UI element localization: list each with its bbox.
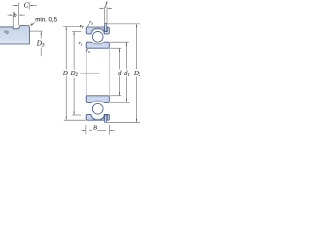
main view: upper ball — [92, 31, 103, 42]
main view: upper outer ring — [86, 27, 109, 34]
dimension D right edge — [107, 24, 140, 122]
main view: lower outer ring — [86, 114, 109, 120]
dimension D2 (left) — [72, 31, 81, 115]
main view: lower inner ring — [86, 96, 109, 103]
svg-text:D2: D2 — [70, 70, 79, 78]
dimension D3 — [30, 31, 43, 56]
dimension C — [12, 2, 36, 25]
dimension B (bottom) — [81, 125, 114, 135]
svg-text:d: d — [118, 70, 122, 77]
svg-text:r1: r1 — [80, 24, 84, 29]
svg-text:D2: D2 — [133, 70, 140, 78]
inner ring raceway shading — [92, 43, 104, 45]
side face line right through bore gap — [108, 48, 110, 96]
svg-text:d1: d1 — [124, 70, 130, 77]
svg-text:C: C — [24, 2, 29, 10]
detail view outer ring section with snap ring groove — [0, 26, 29, 45]
svg-text:r1: r1 — [79, 42, 83, 47]
svg-text:D3: D3 — [36, 39, 45, 48]
side face line left through bore gap — [85, 48, 87, 96]
svg-text:r2: r2 — [89, 21, 93, 26]
svg-text:B: B — [93, 125, 97, 132]
dimension f — [99, 7, 112, 24]
svg-text:f: f — [105, 1, 108, 8]
dimension d1 (right) — [110, 42, 130, 102]
svg-text:r2: r2 — [86, 49, 90, 54]
dimension d (right) — [110, 48, 121, 96]
svg-text:b: b — [14, 12, 17, 19]
main view: lower snap ring — [105, 115, 107, 122]
main view: upper snap ring — [105, 24, 107, 32]
svg-text:D: D — [62, 70, 68, 77]
outer ring raceway shading — [92, 29, 104, 34]
main view: lower ball — [92, 103, 103, 114]
dimension b — [8, 12, 25, 27]
svg-text:min. 0,5: min. 0,5 — [35, 17, 57, 24]
main view: upper inner ring — [86, 42, 109, 48]
axis centerline — [80, 72, 99, 74]
dimension D (left) — [63, 26, 85, 120]
